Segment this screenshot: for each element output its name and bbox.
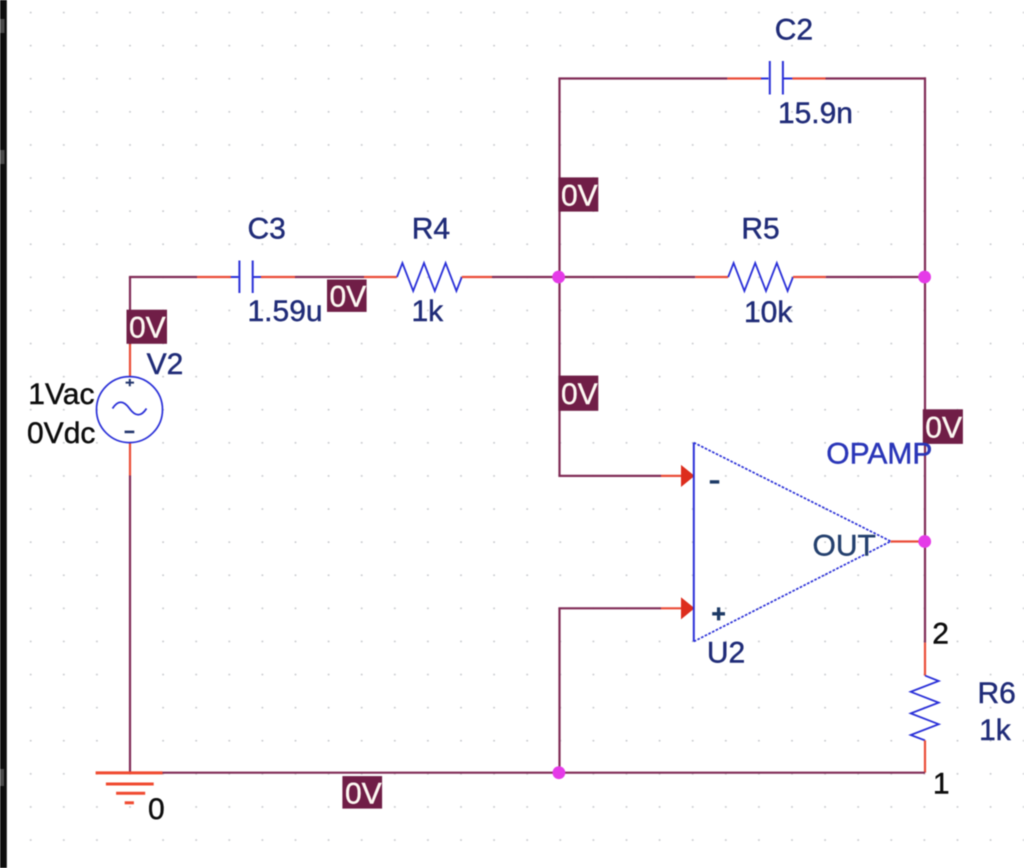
- ground symbol bar 3: [116, 792, 145, 795]
- svg-text:0V: 0V: [129, 312, 166, 345]
- pin C2 right (orange): [792, 77, 825, 79]
- junction node B: [918, 271, 931, 284]
- svg-text:1Vac: 1Vac: [28, 378, 94, 411]
- op-amp U1 triangle: [694, 443, 891, 642]
- wire minus branch horizontal: [558, 475, 661, 477]
- pin C2 left (orange): [727, 77, 761, 79]
- arrow U2 minus input: [681, 465, 695, 487]
- pin R6 bottom (orange): [924, 740, 926, 772]
- pin V2 minus (orange): [129, 443, 131, 476]
- svg-text:1k: 1k: [412, 295, 445, 328]
- pin R4 right (orange): [462, 276, 492, 278]
- svg-text:R4: R4: [412, 213, 450, 246]
- svg-text:R5: R5: [741, 213, 779, 246]
- svg-text:V2: V2: [147, 348, 184, 381]
- V2 sine wave: [113, 402, 147, 415]
- capacitor C3: [231, 261, 261, 294]
- wire right rail middle: [924, 277, 926, 542]
- 0V box mid lower: [558, 376, 598, 411]
- wire top horizontal left: [558, 77, 727, 79]
- 0V box C3-R4: [327, 280, 367, 314]
- svg-text:1k: 1k: [979, 714, 1012, 747]
- wire minus branch vertical: [558, 277, 560, 476]
- wire node A to R5: [560, 276, 696, 278]
- junction node A: [552, 271, 565, 284]
- voltage source V2 circle: [97, 377, 163, 443]
- pin R4 left (orange): [364, 276, 397, 278]
- svg-text:OUT: OUT: [813, 530, 876, 563]
- 0V box bottom: [342, 776, 382, 810]
- left bar letter fragment top: [0, 19, 5, 33]
- resistor R5: [728, 263, 793, 291]
- capacitor C2: [761, 61, 792, 95]
- svg-text:R6: R6: [978, 677, 1016, 710]
- pin R5 left (orange): [695, 276, 728, 278]
- svg-text:0V: 0V: [330, 281, 367, 314]
- pin R6 top (orange): [924, 643, 926, 676]
- wire plus branch vertical: [558, 608, 560, 772]
- svg-text:0Vdc: 0Vdc: [27, 417, 95, 450]
- wire mid vertical upper: [558, 79, 560, 278]
- left bar letter fragment bottom: [0, 769, 4, 786]
- op-amp minus symbol: [710, 480, 720, 483]
- svg-text:0V: 0V: [561, 180, 598, 213]
- svg-text:0: 0: [148, 793, 165, 826]
- wire V2 bottom vertical: [129, 476, 131, 773]
- wire V2 top vertical: [129, 277, 131, 345]
- wire top horizontal right: [826, 77, 927, 79]
- svg-text:1: 1: [933, 767, 950, 800]
- wire bottom ground rail: [163, 772, 926, 774]
- pin U2 plus input (orange): [661, 607, 683, 609]
- 0V box mid upper: [558, 177, 598, 212]
- svg-text:1.59u: 1.59u: [248, 295, 323, 328]
- resistor R6: [911, 676, 939, 741]
- op-amp plus symbol: [712, 607, 725, 620]
- V2 minus mark: [125, 431, 135, 434]
- pin U2 minus input (orange): [661, 475, 683, 477]
- resistor R4: [397, 263, 462, 291]
- pin R5 right (orange): [793, 276, 826, 278]
- ground symbol bar 1: [96, 771, 163, 774]
- arrow U2 plus input: [681, 597, 695, 619]
- 0V box right rail: [923, 409, 963, 444]
- svg-text:0V: 0V: [561, 378, 598, 411]
- wire C3 to R4: [295, 276, 364, 278]
- 0V box V2 top: [127, 310, 168, 345]
- svg-text:C3: C3: [248, 213, 286, 246]
- svg-text:U2: U2: [707, 636, 745, 669]
- wire right rail upper: [924, 77, 926, 277]
- wire right rail to R6: [924, 542, 926, 643]
- ground symbol bar 4: [125, 801, 134, 804]
- svg-text:C2: C2: [775, 14, 813, 47]
- left bar letter fragment middle: [0, 150, 5, 164]
- wire plus branch horizontal: [558, 607, 661, 609]
- wire R5 to node B: [826, 276, 925, 278]
- pin C3 right (orange): [261, 276, 295, 278]
- left window edge black bar: [0, 0, 7, 868]
- V2 plus mark: [126, 379, 134, 386]
- junction node OUT: [918, 535, 931, 548]
- wire main horizontal left segment: [129, 276, 197, 278]
- pin V2 plus (orange): [129, 344, 131, 378]
- pin U2 output (orange): [891, 540, 919, 542]
- svg-text:OPAMP: OPAMP: [826, 438, 932, 471]
- svg-text:10k: 10k: [744, 296, 793, 329]
- svg-text:2: 2: [932, 617, 949, 650]
- junction node ground: [553, 766, 566, 779]
- svg-text:15.9n: 15.9n: [778, 97, 853, 130]
- svg-text:0V: 0V: [345, 777, 382, 810]
- wire R4 to node A: [492, 276, 560, 278]
- pin C3 left (orange): [197, 276, 231, 278]
- ground symbol bar 2: [106, 783, 154, 786]
